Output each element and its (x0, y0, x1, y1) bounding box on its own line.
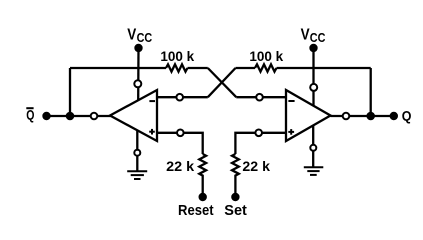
label 22 k right (242, 159, 270, 174)
resistor 100 k left (166, 64, 188, 71)
label Vcc right (301, 26, 326, 44)
wire right top horizontal before resistor (236, 67, 256, 69)
wire left feedback top horizontal (70, 67, 166, 69)
svg-text:Reset: Reset (178, 203, 214, 219)
wire right feedback vertical (370, 68, 372, 116)
wire left op-amp non-inverting input to 22k (157, 133, 203, 154)
op-amp right plus sign (288, 129, 294, 135)
node Q terminal dot (390, 112, 398, 120)
node Q junction dot (366, 112, 375, 121)
wire 22k right to Set terminal (234, 178, 236, 197)
label Reset (178, 203, 214, 219)
label Set (224, 203, 247, 219)
wire 22k left to Reset terminal (202, 178, 204, 197)
wire to left op-amp inverting input (157, 96, 208, 98)
op-amp left plus sign (149, 129, 155, 135)
wire from left 100k to crossover (188, 67, 208, 69)
label Vcc left (127, 27, 153, 45)
node Qbar terminal dot (42, 112, 50, 120)
wire Vcc left lead (137, 48, 140, 100)
wire right op-amp non-inverting input to 22k (235, 133, 286, 154)
label 100 k right (249, 49, 283, 64)
node Qbar junction dot (66, 112, 75, 121)
svg-text:Q: Q (402, 107, 412, 123)
svg-text:22 k: 22 k (242, 159, 270, 174)
pin circle left op-amp ground pin (134, 150, 140, 156)
pin circle left op-amp Vcc pin (134, 80, 141, 87)
label Q (402, 107, 412, 123)
wire left feedback vertical (69, 68, 71, 116)
op-amp right (points right) (286, 90, 331, 141)
label Qbar (26, 107, 34, 122)
op-amp left (points left) (110, 90, 157, 141)
pin circle right op-amp Vcc pin (310, 84, 317, 91)
wire crossover diagonal left-top to right-bottom (208, 68, 237, 97)
pin circle right op-amp non-inverting input (255, 130, 262, 137)
svg-text:100 k: 100 k (249, 49, 283, 64)
Vcc left terminal dot (134, 44, 142, 52)
wire Q output line (331, 115, 394, 117)
wire to right op-amp inverting input (236, 96, 286, 98)
svg-text:100 k: 100 k (160, 49, 194, 64)
wire Qbar output line (46, 115, 111, 117)
svg-text:Set: Set (224, 203, 247, 219)
Vcc right terminal dot (309, 44, 317, 52)
svg-text:V: V (301, 26, 311, 43)
resistor 22 k right (232, 154, 239, 178)
svg-text:Q: Q (26, 107, 34, 122)
label 22 k left (166, 159, 195, 174)
svg-text:22 k: 22 k (166, 159, 195, 174)
op-amp right minus sign (288, 100, 294, 102)
svg-text:CC: CC (137, 30, 153, 45)
resistor 22 k left (199, 154, 206, 178)
resistor 100 k right (255, 64, 277, 71)
svg-text:V: V (127, 27, 137, 44)
wire crossover diagonal right-top to left-bottom (208, 68, 236, 97)
wire right op-amp ground pin (312, 125, 314, 167)
pin circle right op-amp inverting input (256, 94, 263, 101)
pin circle left op-amp output (91, 113, 98, 120)
ground symbol left (127, 171, 147, 179)
wire left op-amp ground pin (136, 130, 138, 171)
pin circle right op-amp ground pin (310, 145, 316, 151)
wire Vcc right lead (312, 48, 314, 106)
Set terminal dot (231, 193, 239, 201)
pin circle right op-amp output (343, 113, 350, 120)
op-amp left minus sign (149, 100, 155, 102)
pin circle left op-amp non-inverting input (177, 130, 184, 137)
label 100 k left (160, 49, 194, 64)
ground symbol right (304, 167, 324, 175)
Reset terminal dot (199, 193, 207, 201)
svg-text:CC: CC (310, 30, 326, 45)
pin circle left op-amp inverting input (176, 94, 183, 101)
wire right feedback top horizontal (277, 67, 371, 69)
